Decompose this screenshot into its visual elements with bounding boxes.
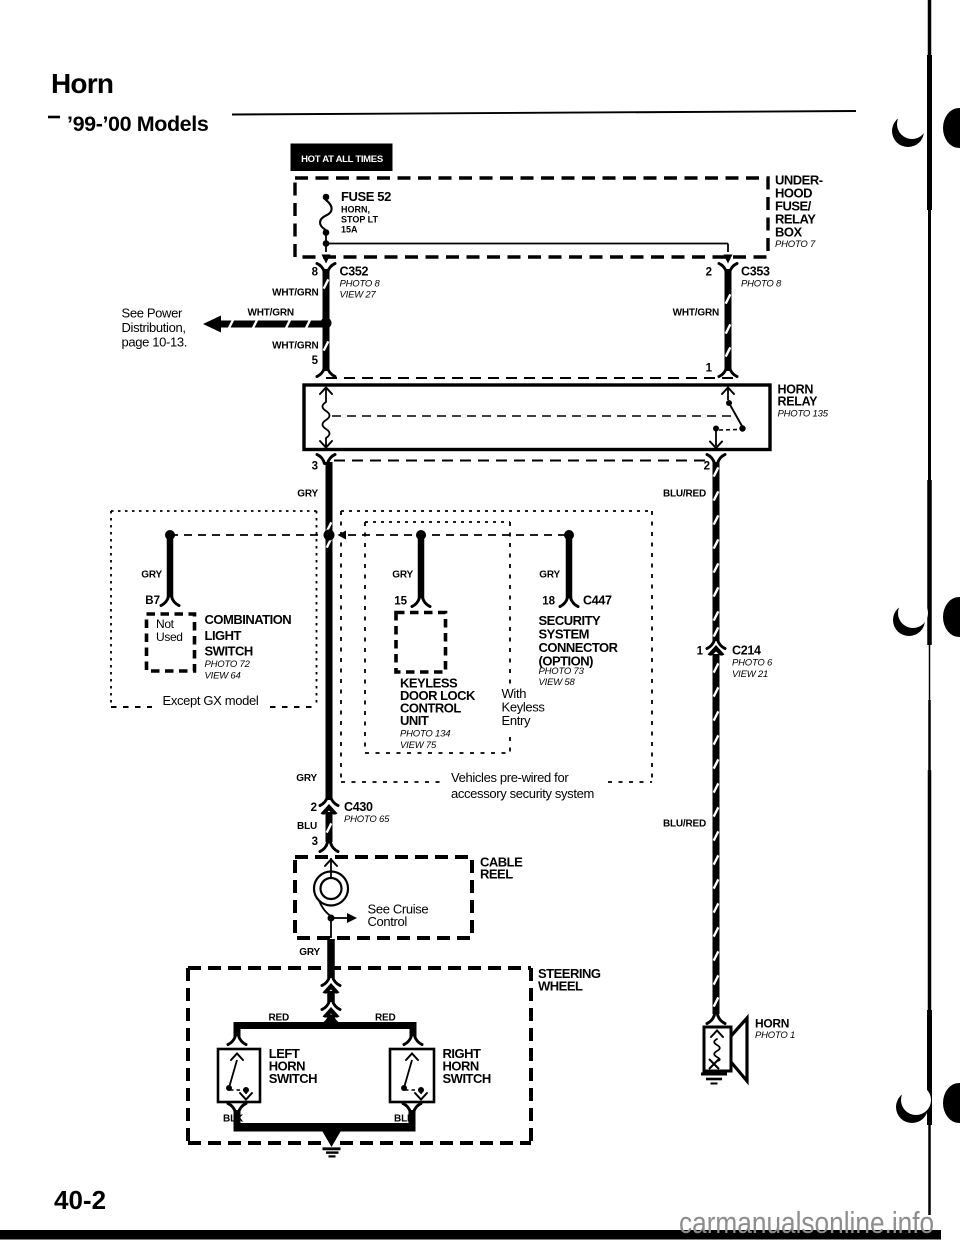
svg-text:GRY: GRY (296, 773, 317, 784)
svg-text:15: 15 (394, 596, 407, 608)
svg-text:C352: C352 (340, 265, 369, 279)
svg-text:BOX: BOX (775, 225, 803, 240)
svg-text:RED: RED (375, 1013, 396, 1024)
svg-text:2: 2 (311, 802, 317, 814)
svg-text:FUSE 52: FUSE 52 (341, 189, 391, 204)
svg-text:WHT/GRN: WHT/GRN (272, 288, 318, 299)
svg-text:2: 2 (704, 461, 710, 473)
svg-text:BLU/RED: BLU/RED (663, 819, 706, 830)
svg-text:1: 1 (697, 646, 704, 658)
svg-text:BLU/RED: BLU/RED (663, 489, 706, 500)
svg-text:Entry: Entry (502, 713, 531, 728)
svg-text:B7: B7 (145, 595, 160, 607)
svg-text:Used: Used (156, 630, 183, 644)
svg-text:SWITCH: SWITCH (205, 644, 253, 659)
svg-text:PHOTO 134: PHOTO 134 (400, 729, 450, 740)
svg-text:VIEW 64: VIEW 64 (205, 671, 241, 682)
svg-text:2: 2 (706, 267, 712, 279)
svg-text:BLK: BLK (394, 1114, 415, 1125)
svg-text:Vehicles pre-wired for: Vehicles pre-wired for (451, 770, 569, 785)
svg-text:GRY: GRY (297, 489, 318, 500)
svg-text:C447: C447 (583, 594, 612, 608)
svg-text:HOT AT ALL TIMES: HOT AT ALL TIMES (301, 154, 383, 165)
svg-text:3: 3 (312, 836, 318, 848)
svg-text:GRY: GRY (392, 570, 413, 581)
svg-text:SWITCH: SWITCH (443, 1071, 491, 1086)
svg-text:Not: Not (156, 617, 175, 631)
svg-text:5: 5 (312, 355, 319, 367)
svg-text:RELAY: RELAY (778, 395, 819, 409)
svg-text:PHOTO 72: PHOTO 72 (205, 659, 251, 670)
svg-text:C214: C214 (732, 644, 761, 658)
svg-text:accessory security system: accessory security system (451, 786, 594, 801)
svg-text:40-2: 40-2 (54, 1185, 106, 1215)
svg-text:PHOTO 7: PHOTO 7 (775, 239, 816, 250)
svg-text:C430: C430 (344, 800, 373, 814)
svg-text:page 10-13.: page 10-13. (122, 335, 188, 350)
svg-text:STOP LT: STOP LT (341, 215, 379, 225)
svg-text:GRY: GRY (299, 947, 320, 958)
svg-text:15A: 15A (341, 225, 358, 235)
svg-text:GRY: GRY (141, 570, 162, 581)
svg-text:PHOTO 8: PHOTO 8 (741, 279, 782, 290)
svg-text:Distribution,: Distribution, (122, 320, 186, 335)
svg-text:WHEEL: WHEEL (538, 979, 583, 994)
svg-text:BLK: BLK (223, 1114, 244, 1125)
svg-text:18: 18 (542, 596, 555, 608)
svg-text:WHT/GRN: WHT/GRN (248, 308, 294, 319)
svg-text:VIEW 21: VIEW 21 (732, 669, 768, 680)
svg-text:PHOTO 6: PHOTO 6 (732, 658, 773, 669)
svg-text:SWITCH: SWITCH (269, 1071, 317, 1086)
svg-text:REEL: REEL (480, 867, 513, 882)
svg-text:VIEW 27: VIEW 27 (340, 290, 377, 301)
svg-text:See Power: See Power (122, 306, 183, 321)
svg-text:GRY: GRY (539, 570, 560, 581)
svg-text:carmanualsonline.info: carmanualsonline.info (679, 1206, 934, 1240)
svg-text:PHOTO 73: PHOTO 73 (539, 666, 585, 677)
svg-text:HORN: HORN (755, 1017, 789, 1031)
svg-text:Except GX model: Except GX model (163, 693, 259, 708)
svg-text:C353: C353 (741, 265, 770, 279)
svg-text:RED: RED (268, 1013, 289, 1024)
svg-text:VIEW 75: VIEW 75 (400, 740, 437, 751)
svg-text:COMBINATION: COMBINATION (205, 612, 292, 627)
svg-text:WHT/GRN: WHT/GRN (272, 341, 318, 352)
svg-text:BLU: BLU (297, 821, 317, 832)
svg-text:PHOTO 1: PHOTO 1 (755, 1030, 795, 1041)
svg-text:8: 8 (312, 267, 319, 279)
svg-text:1: 1 (706, 363, 713, 375)
svg-text:LIGHT: LIGHT (205, 628, 242, 643)
svg-text:Control: Control (368, 914, 408, 929)
svg-text:VIEW 58: VIEW 58 (539, 677, 576, 688)
svg-text:UNIT: UNIT (400, 713, 429, 728)
svg-text:PHOTO 8: PHOTO 8 (340, 279, 381, 290)
svg-text:WHT/GRN: WHT/GRN (673, 308, 719, 319)
svg-text:PHOTO 65: PHOTO 65 (344, 814, 390, 825)
svg-text:Horn: Horn (51, 68, 113, 99)
svg-text:HORN,: HORN, (341, 205, 370, 215)
svg-text:’99-’00 Models: ’99-’00 Models (67, 112, 209, 136)
svg-text:PHOTO 135: PHOTO 135 (778, 409, 829, 420)
svg-text:3: 3 (312, 461, 318, 473)
